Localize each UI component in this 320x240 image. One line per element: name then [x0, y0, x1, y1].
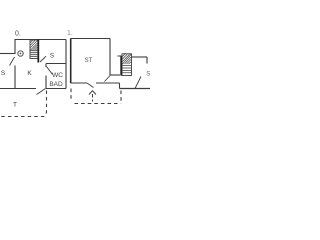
wall: left annex lower-left vertical — [14, 66, 16, 89]
WC door leaf — [47, 67, 53, 75]
dashed terrace outline left (T) — [0, 91, 47, 117]
wall: left annex right vertical — [65, 40, 67, 89]
svg-text:T: T — [13, 102, 17, 109]
main house right wall — [109, 39, 111, 76]
passage top wall to annex — [110, 74, 120, 76]
staircase 2 steps — [123, 66, 132, 73]
dashed veranda outline: bottom + right — [75, 91, 122, 105]
svg-text:S: S — [146, 72, 150, 78]
svg-text:ST: ST — [85, 58, 93, 64]
right annex right wall segment — [146, 57, 148, 64]
chimney symbol (circle with dot) — [18, 51, 23, 56]
staircase 1 box — [30, 40, 39, 59]
WC/BAD left wall lower segment — [45, 76, 47, 89]
main house top wall — [71, 38, 111, 40]
entrance arrow head — [89, 91, 96, 95]
staircase 2 box — [122, 54, 132, 76]
door leaf to terrace — [37, 89, 46, 95]
wall stub left of staircase 2 — [118, 55, 122, 57]
door leaf in right wall — [105, 75, 111, 82]
main house bottom wall right part — [96, 82, 120, 84]
svg-text:0.: 0. — [15, 31, 21, 38]
staircase 1 hatch — [31, 41, 39, 51]
wall: interior wall going off image left — [0, 53, 15, 55]
door leaf at stair foot — [40, 56, 46, 62]
staircase 2 hatch — [123, 54, 132, 64]
main house bottom wall left part — [71, 82, 88, 84]
right annex top wall — [132, 56, 148, 58]
svg-text:1.: 1. — [67, 30, 73, 37]
staircase 2 thick left wall — [120, 56, 122, 76]
svg-text:S: S — [50, 53, 55, 60]
svg-text:WC: WC — [52, 72, 63, 79]
jog in bottom wall — [119, 83, 121, 89]
WC/BAD left wall upper segment — [45, 64, 47, 68]
door leaf in left wall — [10, 57, 15, 66]
wall: left annex upper-left vertical — [14, 39, 16, 54]
door leaf right annex — [135, 77, 141, 89]
main house left wall (thick) — [70, 39, 72, 84]
dashed veranda outline below main house: left vertical — [70, 89, 72, 102]
entrance arrow shaft — [92, 94, 94, 102]
WC/BAD room top wall — [46, 63, 66, 65]
wall: left annex bottom (with terrace door gap) — [0, 88, 36, 90]
svg-text:K: K — [27, 70, 32, 77]
svg-text:BAD: BAD — [49, 81, 63, 88]
staircase 1 thick right wall — [37, 40, 39, 63]
right annex bottom wall — [120, 88, 151, 90]
entry door leaf — [87, 83, 94, 88]
svg-text:S: S — [1, 70, 6, 77]
staircase 1 steps — [31, 51, 39, 57]
wall: left annex top — [15, 39, 66, 41]
